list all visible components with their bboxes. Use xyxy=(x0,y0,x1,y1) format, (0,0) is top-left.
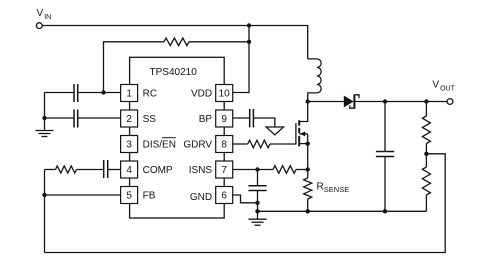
terminal VOUT xyxy=(447,99,453,105)
svg-text:R: R xyxy=(317,181,324,192)
wire diode cathode to VOUT xyxy=(354,101,447,103)
resistor ISNS filter xyxy=(273,166,296,174)
pin 1 box (RC) xyxy=(121,85,157,102)
wire RC feedforward row right segment xyxy=(189,41,249,43)
svg-text:GND: GND xyxy=(190,192,212,203)
wire COMP cap to pin 4 xyxy=(108,169,121,171)
svg-text:ISNS: ISNS xyxy=(189,165,213,176)
svg-text:GDRV: GDRV xyxy=(183,140,212,151)
svg-text:BP: BP xyxy=(199,114,213,125)
wire RSENSE top lead xyxy=(307,170,309,179)
junction dot switch node xyxy=(306,99,310,103)
wire GND pin 6 jog to ground node xyxy=(233,195,258,203)
svg-text:V: V xyxy=(37,8,44,19)
junction dot output cap to ground rail xyxy=(383,209,387,213)
svg-text:DIS/EN: DIS/EN xyxy=(143,140,176,151)
pin 7 box (ISNS) xyxy=(189,161,233,178)
pin 9 box (BP) xyxy=(199,110,233,127)
svg-text:5: 5 xyxy=(126,191,132,202)
svg-text:SS: SS xyxy=(143,114,157,125)
svg-text:10: 10 xyxy=(219,89,231,100)
svg-text:IN: IN xyxy=(44,14,51,21)
wire ground stem left xyxy=(44,118,46,131)
svg-text:2: 2 xyxy=(126,114,132,125)
junction dot SS cap / ground xyxy=(42,116,46,120)
pin 3 overline on EN xyxy=(162,137,176,139)
wire BP cap to analog ground xyxy=(253,118,274,127)
junction dot output cap tap xyxy=(383,99,387,103)
junction dot RC node xyxy=(101,90,105,94)
svg-text:VDD: VDD xyxy=(191,89,212,100)
pin 10 box (VDD) xyxy=(191,85,233,102)
svg-text:SENSE: SENSE xyxy=(324,185,349,194)
wire RSENSE bottom lead xyxy=(307,199,309,211)
wire FB node vertical (left) xyxy=(44,170,46,253)
svg-text:6: 6 xyxy=(221,191,227,202)
svg-text:OUT: OUT xyxy=(440,86,456,93)
wire switch node to diode anode xyxy=(308,101,344,103)
wire RC cap left lead xyxy=(45,92,75,94)
ground (left) xyxy=(36,131,54,137)
wire left cap common branch xyxy=(44,93,46,119)
svg-text:8: 8 xyxy=(221,140,227,151)
wire MOSFET source to sense node xyxy=(307,134,309,170)
svg-text:FB: FB xyxy=(143,191,156,202)
svg-text:1: 1 xyxy=(126,89,132,100)
wire divider top lead xyxy=(425,102,427,117)
wire ISNS resistor to sense node xyxy=(296,169,308,171)
svg-text:RC: RC xyxy=(143,89,157,100)
junction dot RSENSE to ground rail xyxy=(306,209,310,213)
junction dot center ground rail xyxy=(255,209,259,213)
wire COMP row left segment xyxy=(45,169,56,171)
inductor L1 xyxy=(308,59,321,102)
IC U1 TPS40210 controller outline xyxy=(130,57,225,218)
svg-text:4: 4 xyxy=(126,165,132,176)
wire ISNS cap top lead xyxy=(257,170,259,186)
svg-text:9: 9 xyxy=(221,114,227,125)
wire SS cap left lead xyxy=(45,117,75,119)
ground (center) xyxy=(249,219,267,225)
junction dot sense node xyxy=(306,167,310,171)
resistor feedforward RC-to-VIN xyxy=(164,38,189,46)
resistor gate drive xyxy=(248,140,270,148)
junction dot divider tap xyxy=(424,99,428,103)
capacitor ISNS filter xyxy=(248,186,266,191)
wire divider middle xyxy=(425,144,427,168)
capacitor BP bypass xyxy=(250,109,254,127)
wire divider bottom lead xyxy=(425,195,427,211)
svg-text:TPS40210: TPS40210 xyxy=(150,67,198,78)
wire ISNS pin to filter resistor xyxy=(233,169,273,171)
capacitor output xyxy=(376,152,394,157)
diode D1 Schottky xyxy=(344,94,359,108)
capacitor COMP compensation xyxy=(104,160,108,178)
pin 2 box (SS) xyxy=(121,110,157,127)
wire FB feedback bottom rail xyxy=(45,154,446,253)
wire power ground rail xyxy=(258,210,427,212)
ground (BP, triangle style) xyxy=(266,127,283,135)
wire top rail VIN to inductor xyxy=(42,26,307,59)
pin 5 box (FB) xyxy=(121,187,156,204)
wire BP pin to cap xyxy=(233,117,250,119)
svg-text:COMP: COMP xyxy=(143,165,173,176)
svg-text:V: V xyxy=(432,80,439,91)
wire FB row to pin 5 xyxy=(45,194,121,196)
junction dot GND pin tie xyxy=(255,201,259,205)
junction dot source/body tie xyxy=(306,142,310,146)
capacitor SS soft-start xyxy=(74,110,78,128)
wire RC cap to pin 1 xyxy=(78,92,121,94)
junction dot ISNS filter node xyxy=(255,167,259,171)
wire GDRV pin to gate resistor xyxy=(233,143,248,145)
capacitor RC timing xyxy=(74,84,78,102)
junction dot FB node xyxy=(42,193,46,197)
pin 8 box (GDRV) xyxy=(183,136,232,153)
resistor COMP compensation xyxy=(56,166,77,173)
wire SS cap to pin 2 xyxy=(78,117,121,119)
junction dot VDD branch / feedforward resistor xyxy=(247,40,251,44)
terminal VIN xyxy=(36,23,42,29)
wire ISNS cap bottom lead xyxy=(257,191,259,212)
wire output cap top lead xyxy=(384,102,386,152)
svg-text:7: 7 xyxy=(221,165,227,176)
pin 6 box (GND) xyxy=(190,187,233,204)
wire COMP resistor to cap xyxy=(77,169,104,171)
pin 4 box (COMP) xyxy=(121,161,173,178)
junction dot feedback tap xyxy=(424,152,428,156)
wire output cap bottom lead xyxy=(384,157,386,212)
resistor divider upper xyxy=(422,116,430,144)
wire VDD branch down to pin 10 xyxy=(233,26,249,93)
svg-text:3: 3 xyxy=(126,140,132,151)
wire RC feedforward row left segment xyxy=(104,42,165,93)
resistor RSENSE xyxy=(304,178,312,199)
resistor divider lower xyxy=(422,167,430,195)
wire ground stem center xyxy=(257,211,259,219)
pin 3 box (DIS/EN) xyxy=(121,136,176,153)
junction dot top rail / VDD branch xyxy=(247,23,251,27)
transistor Q1 N-MOSFET xyxy=(296,120,308,146)
wire MOSFET drain lead xyxy=(299,102,308,122)
wire gate resistor to MOSFET gate xyxy=(270,143,296,145)
